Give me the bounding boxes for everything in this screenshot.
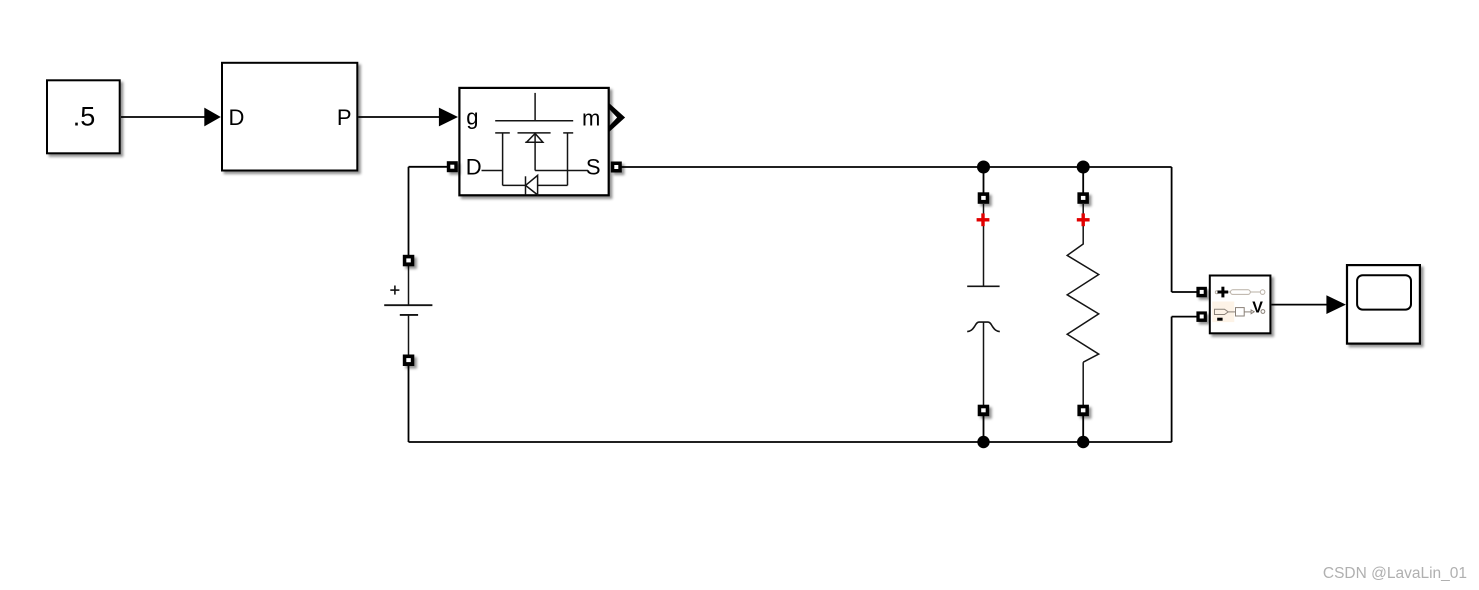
svg-text:S: S	[586, 154, 601, 179]
svg-text:V: V	[1252, 299, 1263, 316]
svg-text:D: D	[229, 105, 245, 130]
svg-text:P: P	[337, 105, 352, 130]
svg-text:g: g	[466, 105, 478, 130]
svg-text:.5: .5	[73, 101, 96, 131]
svg-text:m: m	[582, 106, 600, 131]
svg-text:CSDN @LavaLin_01: CSDN @LavaLin_01	[1323, 565, 1467, 582]
svg-text:D: D	[466, 154, 482, 179]
